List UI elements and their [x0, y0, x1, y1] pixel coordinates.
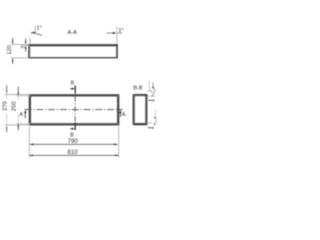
dim 250: upper arrow — [17, 87, 19, 93]
section B-B corner dot bottom right — [146, 123, 148, 125]
svg-text:B-B: B-B — [133, 85, 143, 91]
B-B inner top extension dash — [148, 95, 156, 97]
vertical centerline (cut B-B) — [74, 86, 76, 131]
dim 250: light mid stems — [17, 93, 19, 100]
dim 7: extension tick — [22, 45, 30, 47]
section marker B top: stub — [74, 85, 76, 93]
svg-text:1°: 1° — [118, 28, 123, 34]
section marker B bottom: stub — [74, 123, 76, 130]
section marker A right: arrow — [120, 113, 122, 117]
B-B draft dim top: tick — [151, 91, 153, 93]
B-B draft dim bottom: riser extension — [154, 110, 156, 116]
B-B draft dim bottom: arc — [154, 117, 156, 126]
svg-text:7: 7 — [21, 46, 27, 49]
dim 250: lower arrow — [17, 127, 19, 130]
B-B draft dim top: arc — [152, 87, 155, 97]
dim 120: extension tick bottom — [11, 57, 29, 59]
B-B draft dim top: rotated label 1deg — [148, 99, 152, 101]
draft angle 1 deg right: leader line — [107, 32, 113, 34]
dim 790/810 extension line left — [28, 127, 30, 158]
main view inner pocket rectangle — [31, 96, 118, 124]
section marker B bottom: arrow — [70, 128, 73, 130]
dim 790: line — [30, 143, 118, 145]
draft angle 1 deg left: leader riser — [34, 26, 36, 34]
dim 270: lower arrow — [6, 128, 8, 132]
dim 790/810 extension line right — [118, 127, 120, 158]
B-B draft dim top: arc end arrow — [151, 95, 153, 96]
svg-text:A-A: A-A — [68, 30, 78, 36]
dim 270: light mid stems — [6, 92, 8, 100]
dim 270: extension line top — [5, 94, 29, 96]
draft angle 1 deg left: arrow — [30, 32, 35, 34]
svg-text:270: 270 — [2, 101, 8, 111]
B-B draft dim top: extension line — [147, 90, 152, 92]
svg-text:1°: 1° — [37, 26, 42, 32]
B-B draft dim top: riser extension — [149, 80, 151, 90]
section A-A inner wall left — [29, 46, 31, 58]
section A-A inner floor line — [30, 45, 117, 47]
svg-text:250: 250 — [12, 102, 18, 112]
draft angle 1 deg right: tail line — [117, 32, 122, 34]
B-B draft dim top: down arrow — [152, 83, 154, 87]
main view outer rectangle — [29, 95, 118, 125]
B-B draft dim bottom: rotated label 1deg — [148, 127, 152, 129]
section B-B inner lines — [134, 96, 145, 124]
section A-A inner wall right — [115, 46, 117, 58]
svg-text:A: A — [19, 112, 23, 118]
B-B draft dim bottom: extension line — [147, 122, 152, 124]
section B-B outline — [133, 95, 147, 125]
dim 270: extension line bottom — [5, 124, 29, 126]
dim 250: extension tick top — [16, 95, 30, 97]
section B-B corner dot top right — [146, 94, 148, 96]
section A-A corner dot right — [116, 44, 118, 46]
dim 7: lower arrow — [25, 49, 27, 52]
dim 120: upper arrow — [12, 38, 14, 41]
dim 120: extension tick top — [11, 43, 29, 45]
dim 790: left arrow — [30, 144, 34, 146]
dim 270: upper arrow — [6, 85, 8, 91]
draft angle 1 deg right: vertical extension above corner — [116, 27, 118, 45]
dim 120: lower arrow — [12, 61, 14, 64]
section A-A outline — [29, 45, 117, 58]
section marker B top: arrow — [70, 88, 73, 90]
svg-text:790: 790 — [68, 138, 79, 145]
B-B draft dim bottom: arc bottom arrow — [154, 123, 156, 125]
svg-text:A: A — [122, 112, 126, 118]
dim 250: extension tick bottom — [16, 123, 30, 125]
horizontal centerline (cut A-A) — [25, 109, 123, 111]
dim 810: line — [29, 154, 118, 156]
section A-A corner dot left — [29, 44, 31, 46]
dim 810: right arrow — [115, 155, 119, 157]
svg-text:120: 120 — [7, 45, 13, 54]
svg-text:810: 810 — [67, 149, 78, 156]
section marker A left: arrow — [24, 113, 26, 118]
dim 810: left arrow — [29, 155, 32, 157]
draft angle 1 deg right: arrow — [113, 32, 117, 34]
dim 7: upper arrow — [25, 38, 27, 41]
dim 790: right arrow — [114, 144, 118, 146]
B-B draft dim bottom: arc top arrow — [154, 116, 155, 119]
svg-text:B: B — [71, 81, 75, 87]
draft angle 1 deg left: tail line — [35, 33, 42, 36]
draft angle 1 deg left: vertical extension above corner — [29, 38, 31, 45]
